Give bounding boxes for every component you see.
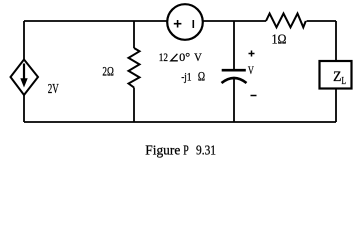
resistor 2 ohm (vertical zigzag): [129, 48, 140, 88]
wire bottom rail: [24, 121, 336, 123]
arrow inside dependent source (pointing down): [23, 64, 25, 81]
resistor 1 ohm (horizontal zigzag): [266, 14, 306, 28]
svg-text:12: 12: [159, 50, 168, 64]
svg-text:V: V: [248, 65, 254, 77]
load impedance box ZL: [320, 61, 352, 89]
svg-text:-j1: -j1: [181, 70, 191, 84]
svg-text:2V: 2V: [48, 81, 59, 96]
voltage source circle 12 angle 0 V: [167, 4, 203, 40]
svg-text:0°: 0°: [179, 50, 190, 64]
wire 2-ohm resistor bottom lead: [133, 88, 135, 123]
minus polarity bar inside source: [192, 20, 194, 28]
wire right vertical lower segment: [335, 89, 337, 123]
wire top-left horizontal segment (node A to source): [24, 20, 167, 22]
wire left vertical lower segment: [23, 95, 25, 122]
capacitor -j1 ohm top plate: [222, 69, 246, 72]
svg-text:V: V: [194, 50, 202, 64]
plus mark of capacitor voltage V: [249, 53, 255, 55]
angle symbol: [171, 54, 178, 61]
capacitor -j1 ohm bottom curved plate: [222, 78, 247, 83]
wire capacitor top lead: [233, 21, 235, 70]
svg-text:Z: Z: [333, 69, 342, 85]
svg-text:2Ω: 2Ω: [102, 64, 114, 79]
svg-text:9.31: 9.31: [196, 144, 216, 159]
minus mark of capacitor voltage: [251, 95, 257, 97]
svg-text:L: L: [342, 76, 347, 87]
dependent current source (diamond) 2V: [11, 60, 39, 96]
wire capacitor bottom lead: [233, 79, 235, 123]
plus polarity mark inside source: [174, 23, 182, 25]
wire top middle segment (source to resistor, junction at capacitor): [203, 20, 266, 22]
svg-text:P: P: [183, 144, 189, 159]
wire top right segment: [307, 20, 337, 22]
svg-text:Figure: Figure: [145, 144, 180, 159]
wire left vertical upper segment: [23, 21, 25, 60]
wire 2-ohm resistor top lead: [133, 21, 135, 48]
wire right vertical upper segment: [335, 21, 337, 61]
svg-text:Ω: Ω: [198, 70, 205, 84]
svg-text:1Ω: 1Ω: [272, 32, 287, 47]
